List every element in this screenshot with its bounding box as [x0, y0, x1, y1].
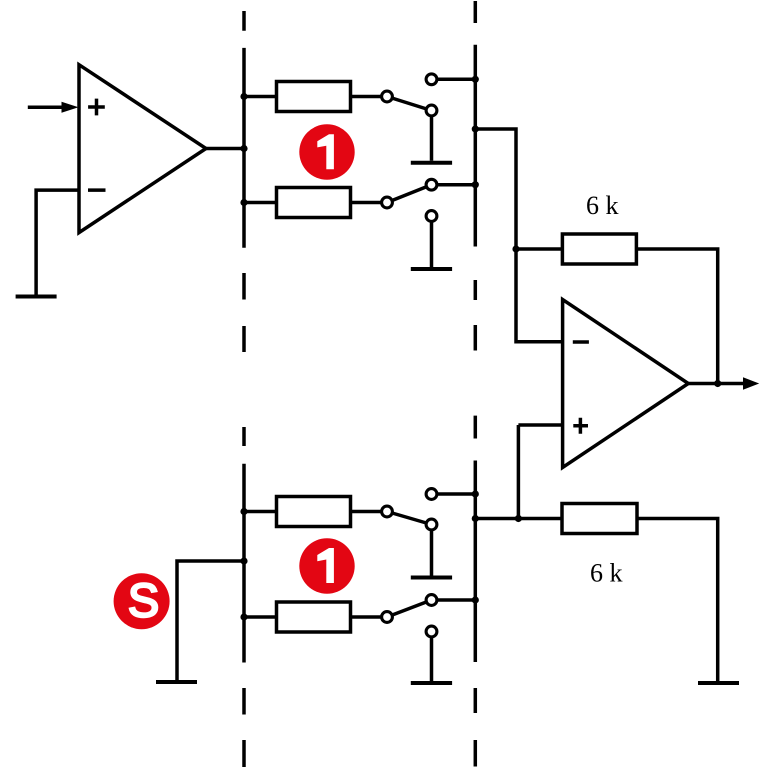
svg-text:6 k: 6 k [586, 191, 619, 220]
svg-text:S: S [128, 574, 159, 627]
svg-text:6 k: 6 k [590, 559, 623, 588]
